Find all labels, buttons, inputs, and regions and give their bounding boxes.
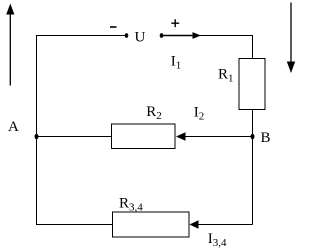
resistor R2 [112, 124, 176, 149]
svg-text:A: A [8, 119, 19, 135]
current arrow I2 head pointing left into R2 [176, 132, 186, 141]
external up arrow left side shaft [9, 12, 11, 86]
wire R1 bottom through node B down to bottom right corner [252, 110, 254, 225]
voltage source U plus terminal dot [160, 33, 164, 38]
wire top segment from plus terminal to right corner [162, 35, 253, 37]
svg-text:I3,4: I3,4 [208, 231, 227, 249]
current arrow I1 head [193, 32, 202, 39]
external down arrow right side shaft [290, 3, 292, 63]
wire middle from node B to I2 arrowhead [184, 136, 253, 138]
svg-text:I2: I2 [194, 105, 205, 123]
external up arrow left side head [6, 4, 14, 15]
current arrow I3,4 head pointing left into R3,4 [190, 220, 199, 229]
svg-text:B: B [261, 130, 271, 146]
resistor R1 [239, 59, 265, 110]
current arrow I1 shaft on top wire [162, 35, 193, 37]
svg-text:R2: R2 [146, 104, 162, 122]
svg-text:U: U [135, 30, 146, 46]
plus polarity mark [171, 19, 179, 27]
wire bottom from left corner to R3,4 [36, 224, 113, 226]
node A junction dot [35, 134, 39, 140]
wire top segment from corner to minus terminal [36, 35, 126, 37]
svg-text:R1: R1 [218, 67, 234, 85]
svg-text:R3,4: R3,4 [119, 196, 143, 214]
minus polarity mark [110, 26, 117, 28]
node B junction dot [251, 134, 255, 140]
wire left vertical branch (A branch) [36, 36, 38, 225]
svg-text:I1: I1 [171, 54, 182, 72]
wire bottom from I3,4 arrowhead to bottom right corner [196, 224, 253, 226]
resistor R3,4 [113, 212, 190, 237]
voltage source U minus terminal dot [125, 33, 129, 38]
wire middle from node A to R2 left [36, 136, 112, 138]
external down arrow right side head [287, 62, 295, 74]
wire right drop from corner to R1 top [252, 35, 254, 59]
